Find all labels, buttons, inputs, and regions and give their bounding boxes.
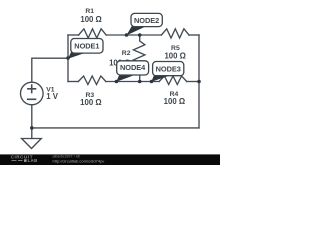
svg-text:R2: R2 bbox=[122, 50, 131, 57]
node flag NODE4 bbox=[116, 61, 148, 82]
svg-text:LAB: LAB bbox=[28, 158, 38, 163]
svg-text:NODE3: NODE3 bbox=[156, 64, 181, 73]
svg-text:100 Ω: 100 Ω bbox=[80, 15, 101, 24]
wire bottom mid rail middle segment bbox=[106, 81, 159, 83]
resistor R1 bbox=[79, 29, 107, 38]
svg-text:NODE2: NODE2 bbox=[134, 16, 159, 25]
junction dot R2 top bbox=[138, 33, 142, 37]
junction dot right rail R4 bbox=[197, 80, 201, 84]
V1 minus sign bbox=[28, 98, 36, 100]
junction dot R2 bottom bbox=[138, 80, 142, 84]
svg-text:100 Ω: 100 Ω bbox=[164, 52, 185, 61]
junction dot node A (NODE1 junction) bbox=[66, 56, 70, 60]
wire bottom mid rail right segment bbox=[187, 81, 199, 83]
voltage source V1 circle bbox=[21, 82, 44, 105]
junction dot ground rail bbox=[30, 126, 34, 130]
node flag NODE2 bbox=[127, 13, 163, 35]
node flag NODE3 bbox=[151, 62, 184, 82]
wire ground rail bbox=[32, 127, 199, 129]
svg-text:1 V: 1 V bbox=[46, 92, 59, 101]
svg-text:NODE4: NODE4 bbox=[120, 63, 146, 72]
svg-text:100 Ω: 100 Ω bbox=[80, 98, 101, 107]
CircuitLab logo text LAB bbox=[12, 160, 17, 161]
V1 plus sign bbox=[28, 85, 36, 93]
junction dot NODE2 tip bbox=[125, 33, 129, 37]
junction dot R3 right / NODE4 bbox=[115, 80, 119, 84]
svg-text:http://circuitlab.com/c/dd74pv: http://circuitlab.com/c/dd74pv bbox=[53, 158, 105, 163]
resistor R3 bbox=[78, 76, 106, 85]
svg-text:R1: R1 bbox=[85, 8, 94, 15]
wire top left vertical riser bbox=[67, 35, 69, 82]
resistor R2 vertical bbox=[133, 35, 145, 82]
wire top rail middle segment bbox=[106, 34, 161, 36]
wire top rail left segment bbox=[68, 34, 79, 36]
svg-text:100 Ω: 100 Ω bbox=[164, 97, 185, 106]
wire top rail right segment bbox=[189, 34, 199, 36]
wire right rail vertical bbox=[198, 35, 200, 128]
svg-text:NODE1: NODE1 bbox=[74, 41, 99, 50]
resistor R4 bbox=[159, 76, 187, 85]
wire V1 bottom to ground bbox=[31, 105, 33, 139]
wire V1 top feed bbox=[32, 58, 68, 82]
resistor R5 bbox=[161, 29, 189, 38]
watermark bar bbox=[0, 154, 220, 165]
wire bottom mid rail left lead bbox=[68, 81, 78, 83]
node flag NODE1 bbox=[68, 39, 103, 59]
junction dot NODE3 tip bbox=[150, 80, 154, 84]
ground symbol bbox=[22, 139, 42, 149]
